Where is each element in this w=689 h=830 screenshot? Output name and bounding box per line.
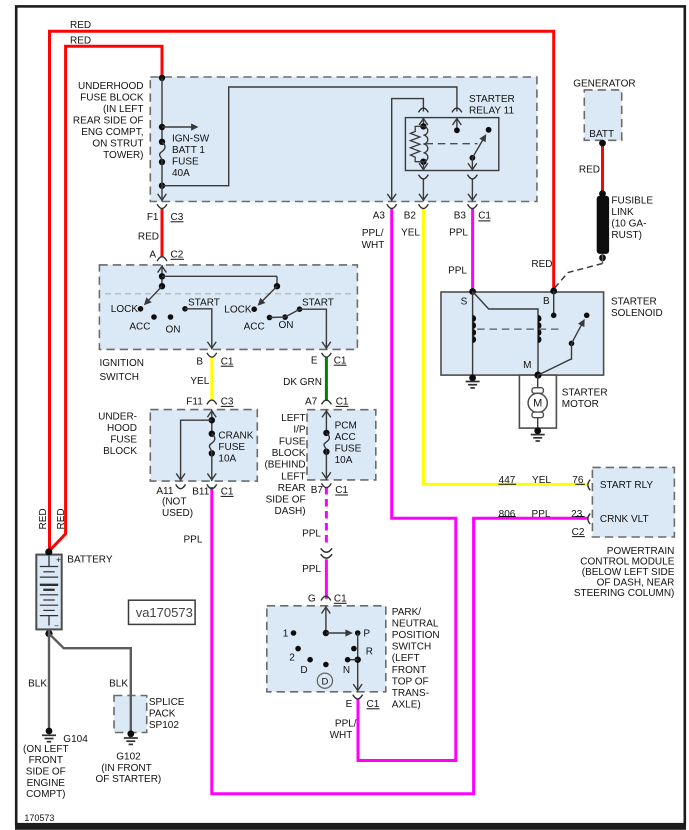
svg-text:FUSE: FUSE bbox=[218, 442, 245, 453]
svg-text:RUST): RUST) bbox=[611, 230, 642, 241]
svg-text:TOP OF: TOP OF bbox=[392, 676, 429, 687]
svg-text:SOLENOID: SOLENOID bbox=[611, 308, 663, 319]
svg-text:F11: F11 bbox=[186, 397, 203, 408]
svg-text:170573: 170573 bbox=[24, 813, 54, 823]
svg-text:23: 23 bbox=[571, 509, 583, 520]
svg-text:PPL: PPL bbox=[448, 266, 467, 277]
svg-text:OF STARTER): OF STARTER) bbox=[96, 774, 162, 785]
svg-text:B2: B2 bbox=[404, 210, 417, 221]
svg-text:N: N bbox=[343, 665, 350, 676]
svg-text:(IN FRONT: (IN FRONT bbox=[101, 763, 152, 774]
svg-text:LOCK: LOCK bbox=[111, 304, 139, 315]
svg-text:E: E bbox=[311, 355, 318, 366]
svg-text:REAR SIDE OF: REAR SIDE OF bbox=[73, 115, 144, 126]
svg-text:LEFT: LEFT bbox=[281, 413, 305, 424]
svg-text:START: START bbox=[302, 298, 334, 309]
svg-text:SP102: SP102 bbox=[149, 720, 179, 731]
svg-text:COMPT): COMPT) bbox=[26, 789, 65, 800]
svg-text:BATT 1: BATT 1 bbox=[172, 145, 205, 156]
svg-text:RED: RED bbox=[579, 165, 600, 176]
svg-text:RED: RED bbox=[138, 232, 159, 243]
svg-text:va170573: va170573 bbox=[136, 605, 193, 620]
svg-text:PARK/: PARK/ bbox=[392, 607, 421, 618]
svg-text:UNDERHOOD: UNDERHOOD bbox=[78, 81, 144, 92]
svg-text:AXLE): AXLE) bbox=[392, 700, 421, 711]
svg-text:LINK: LINK bbox=[611, 207, 634, 218]
svg-text:YEL: YEL bbox=[190, 376, 209, 387]
svg-text:806: 806 bbox=[499, 509, 516, 520]
svg-text:TRANS-: TRANS- bbox=[392, 688, 429, 699]
svg-text:A11: A11 bbox=[156, 486, 173, 497]
svg-text:(LEFT: (LEFT bbox=[392, 653, 420, 664]
svg-text:STEERING COLUMN): STEERING COLUMN) bbox=[574, 588, 675, 599]
svg-text:FUSE: FUSE bbox=[335, 444, 362, 455]
svg-text:YEL: YEL bbox=[401, 228, 420, 239]
svg-text:DASH): DASH) bbox=[274, 506, 305, 517]
svg-text:IGNITION: IGNITION bbox=[100, 358, 144, 369]
svg-text:WHT: WHT bbox=[330, 730, 353, 741]
svg-text:FUSE: FUSE bbox=[279, 436, 306, 447]
svg-text:FUSE: FUSE bbox=[110, 435, 137, 446]
svg-text:LOCK: LOCK bbox=[224, 305, 252, 316]
svg-text:FRONT: FRONT bbox=[29, 755, 63, 766]
svg-text:B: B bbox=[196, 356, 203, 367]
svg-text:FUSE BLOCK: FUSE BLOCK bbox=[80, 92, 144, 103]
svg-text:POWERTRAIN: POWERTRAIN bbox=[607, 546, 675, 557]
svg-text:(IN LEFT: (IN LEFT bbox=[103, 104, 144, 115]
svg-text:YEL: YEL bbox=[532, 475, 551, 486]
svg-text:B3: B3 bbox=[454, 210, 467, 221]
svg-text:BLK: BLK bbox=[109, 679, 128, 690]
svg-text:ON STRUT: ON STRUT bbox=[92, 138, 143, 149]
svg-text:START RLY: START RLY bbox=[600, 480, 653, 491]
svg-text:(10 GA-: (10 GA- bbox=[611, 219, 646, 230]
svg-text:GENERATOR: GENERATOR bbox=[573, 79, 635, 90]
svg-text:1: 1 bbox=[283, 629, 289, 640]
svg-text:STARTER: STARTER bbox=[562, 387, 608, 398]
svg-text:C1: C1 bbox=[478, 210, 491, 221]
svg-text:STARTER: STARTER bbox=[469, 94, 515, 105]
svg-text:R: R bbox=[366, 647, 373, 658]
svg-text:ON: ON bbox=[279, 320, 294, 331]
svg-text:M: M bbox=[533, 398, 542, 410]
svg-text:G102: G102 bbox=[116, 752, 141, 763]
svg-text:B: B bbox=[543, 296, 550, 307]
svg-text:SIDE OF: SIDE OF bbox=[26, 767, 66, 778]
svg-text:G: G bbox=[308, 594, 316, 605]
svg-text:+: + bbox=[56, 555, 61, 565]
svg-text:HOOD: HOOD bbox=[107, 423, 137, 434]
svg-text:RED: RED bbox=[531, 259, 552, 270]
svg-text:MOTOR: MOTOR bbox=[562, 399, 599, 410]
svg-text:ENGINE: ENGINE bbox=[27, 778, 66, 789]
svg-text:RELAY 11: RELAY 11 bbox=[469, 105, 514, 116]
svg-text:OF DASH, NEAR: OF DASH, NEAR bbox=[597, 578, 675, 589]
svg-text:FUSIBLE: FUSIBLE bbox=[611, 196, 653, 207]
svg-text:PPL: PPL bbox=[449, 228, 468, 239]
svg-text:B11: B11 bbox=[192, 487, 209, 498]
svg-text:(ON LEFT: (ON LEFT bbox=[23, 744, 69, 755]
svg-text:(BELOW LEFT SIDE: (BELOW LEFT SIDE bbox=[582, 567, 675, 578]
svg-text:BLOCK: BLOCK bbox=[103, 446, 137, 457]
svg-text:BATT: BATT bbox=[589, 129, 614, 140]
svg-text:FUSE: FUSE bbox=[172, 157, 199, 168]
svg-text:STARTER: STARTER bbox=[611, 296, 657, 307]
svg-text:B7: B7 bbox=[311, 485, 324, 496]
svg-text:NEUTRAL: NEUTRAL bbox=[392, 618, 439, 629]
svg-text:FRONT: FRONT bbox=[392, 665, 426, 676]
svg-text:SWITCH: SWITCH bbox=[100, 372, 139, 383]
svg-text:PPL: PPL bbox=[532, 509, 551, 520]
svg-text:WHT: WHT bbox=[362, 240, 385, 251]
svg-text:447: 447 bbox=[499, 475, 516, 486]
svg-text:E: E bbox=[346, 699, 353, 710]
svg-text:ACC: ACC bbox=[129, 321, 150, 332]
svg-text:CRNK VLT: CRNK VLT bbox=[600, 514, 649, 525]
svg-text:PCM: PCM bbox=[335, 421, 357, 432]
svg-text:RED: RED bbox=[70, 36, 91, 47]
svg-text:2: 2 bbox=[289, 653, 295, 664]
svg-text:D: D bbox=[300, 665, 307, 676]
svg-text:F1: F1 bbox=[147, 212, 159, 223]
svg-text:P: P bbox=[363, 629, 370, 640]
svg-text:40A: 40A bbox=[172, 168, 190, 179]
svg-text:CONTROL MODULE: CONTROL MODULE bbox=[580, 557, 674, 568]
svg-text:A7: A7 bbox=[305, 397, 318, 408]
svg-text:A3: A3 bbox=[373, 210, 386, 221]
svg-text:LEFT: LEFT bbox=[281, 471, 305, 482]
svg-text:ENG COMPT,: ENG COMPT, bbox=[81, 127, 143, 138]
svg-text:SIDE OF: SIDE OF bbox=[266, 495, 306, 506]
svg-text:SWITCH: SWITCH bbox=[392, 642, 431, 653]
svg-text:IGN-SW: IGN-SW bbox=[172, 134, 210, 145]
svg-text:START: START bbox=[188, 298, 220, 309]
svg-text:−: − bbox=[54, 621, 59, 630]
svg-text:REAR: REAR bbox=[278, 483, 306, 494]
svg-text:BLK: BLK bbox=[28, 679, 47, 690]
svg-text:PPL/: PPL/ bbox=[335, 718, 357, 729]
svg-text:PPL: PPL bbox=[302, 564, 321, 575]
svg-text:ACC: ACC bbox=[244, 321, 265, 332]
svg-text:UNDER-: UNDER- bbox=[98, 412, 137, 423]
svg-text:ACC: ACC bbox=[335, 432, 356, 443]
svg-text:CRANK: CRANK bbox=[218, 431, 253, 442]
svg-text:S: S bbox=[461, 296, 468, 307]
svg-text:A: A bbox=[149, 250, 156, 261]
svg-text:PACK: PACK bbox=[149, 708, 176, 719]
svg-text:PPL/: PPL/ bbox=[362, 228, 384, 239]
svg-text:10A: 10A bbox=[218, 454, 236, 465]
svg-text:M: M bbox=[523, 360, 531, 371]
svg-text:D: D bbox=[321, 676, 328, 687]
svg-text:I/P: I/P bbox=[293, 425, 306, 436]
svg-text:RED: RED bbox=[70, 20, 91, 31]
svg-text:(NOT: (NOT bbox=[162, 497, 186, 508]
svg-text:10A: 10A bbox=[335, 455, 353, 466]
svg-text:DK GRN: DK GRN bbox=[283, 377, 322, 388]
svg-text:SPLICE: SPLICE bbox=[149, 697, 185, 708]
svg-text:RED: RED bbox=[38, 508, 49, 529]
svg-text:PPL: PPL bbox=[302, 528, 321, 539]
svg-text:PPL: PPL bbox=[183, 535, 202, 546]
svg-text:POSITION: POSITION bbox=[392, 630, 440, 641]
svg-text:76: 76 bbox=[572, 475, 584, 486]
svg-text:ON: ON bbox=[166, 325, 181, 336]
svg-text:RED: RED bbox=[56, 508, 67, 529]
svg-text:(BEHIND: (BEHIND bbox=[264, 460, 305, 471]
svg-text:BLOCK: BLOCK bbox=[272, 448, 306, 459]
svg-text:BATTERY: BATTERY bbox=[67, 555, 113, 566]
svg-text:TOWER): TOWER) bbox=[103, 150, 143, 161]
svg-text:USED): USED) bbox=[162, 508, 193, 519]
